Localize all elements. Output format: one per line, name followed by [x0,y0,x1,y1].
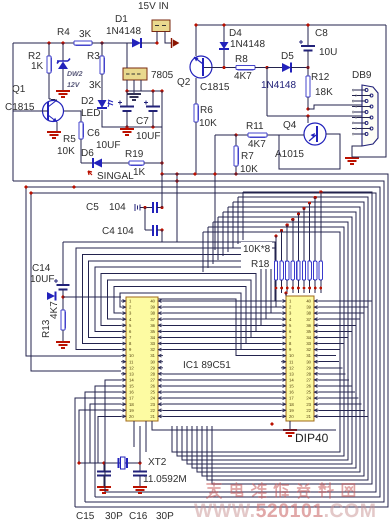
wire DIP40 right pin row 31 [319,355,336,357]
wire Q4 right loop [279,134,340,169]
wire right ring 5 [187,217,352,464]
resistor R13 [61,310,65,330]
svg-text:4K7: 4K7 [248,139,266,150]
svg-text:R5: R5 [63,134,76,145]
wire IC1 to DIP40 row 5 [163,324,281,326]
svg-text:18K: 18K [315,87,333,98]
svg-text:10U: 10U [319,47,337,58]
wire 7805 legs [126,80,128,91]
svg-text:13: 13 [129,371,134,376]
node R7 top [234,133,237,136]
wire right ring 0 west stub [242,192,244,240]
node R8-D5 [265,66,268,69]
DB9 pin 1 line [352,89,366,91]
svg-text:D2: D2 [81,96,94,107]
resistor R12 [306,76,310,97]
wire bus D left branch to IC1 pin12 [31,193,121,371]
svg-text:32: 32 [306,347,311,352]
connector 15V IN [152,20,170,32]
svg-text:Q4: Q4 [283,120,297,131]
svg-text:19: 19 [129,408,134,413]
wire DIP40 right pin row 23 [319,403,362,405]
wire R8 junction down [266,68,268,117]
wire right ring 2 [202,202,364,476]
label IC1 89C51 backdrop [181,356,238,372]
wire DIP40 right pin row 34 [319,336,348,338]
svg-text:10UF: 10UF [96,140,120,151]
wire IC1 to DIP40 row 4 [163,318,281,320]
wire IC1 to DIP40 row 20 [163,415,281,417]
svg-text:C7: C7 [136,116,149,127]
wire IC1 to DIP40 row 16 [163,391,281,393]
wire IC1 left pin 16 escape joins bus ring [85,392,121,502]
wire IC1 to DIP40 row 2 [163,306,281,308]
wire Q4 left to R11 [267,134,304,136]
svg-text:37: 37 [306,317,311,322]
wire crystal gnd rail [79,462,140,464]
svg-text:3K: 3K [79,29,92,40]
wire chip bottom long run [152,421,336,430]
svg-text:R8: R8 [235,54,248,65]
wire right ring 5 west stub [217,217,219,260]
wire left ring 2 [82,254,281,343]
plug symbol [172,38,179,48]
svg-text:1K: 1K [133,167,146,178]
svg-text:C5: C5 [86,202,99,213]
node bus crossings [160,172,163,175]
wire left border from rail to bus [12,43,14,181]
wire Q1 emitter to ground [56,122,58,131]
wire DIP40 right pin row 29 [319,367,342,369]
wire left ring 1 [76,248,281,350]
svg-text:1K: 1K [31,61,44,72]
svg-text:D6: D6 [81,148,94,159]
regulator 7805 [123,68,147,80]
wire 7805 input from rail [126,43,128,68]
resistor R8 [236,65,255,69]
svg-text:30P: 30P [156,511,174,522]
resistor R19 [129,161,144,165]
svg-text:C14: C14 [32,263,51,274]
wire left ring 7 [114,286,281,343]
svg-text:22: 22 [150,408,155,413]
IC1 pin stubs right [158,300,163,418]
ground below C15 [97,487,111,493]
resistor R18 element 8 [314,196,317,199]
svg-text:33: 33 [306,341,311,346]
LED D2 [98,100,107,108]
svg-text:29: 29 [150,365,155,370]
wire right ring 1 west stub [237,197,239,244]
crystal XT2 [119,458,128,468]
svg-text:R18: R18 [251,259,270,270]
wire left ring 3 [89,261,281,338]
svg-text:10K*8: 10K*8 [243,244,271,255]
wire C4 to ring0 [161,230,163,242]
connector DB9 [362,85,378,146]
node R12 bottom [306,107,309,110]
wire right ring 8 [172,232,340,452]
svg-text:38: 38 [150,311,155,316]
capacitor C5 [135,204,140,211]
svg-text:R13: R13 [41,319,52,338]
wire DIP40 right pin row 24 [319,397,358,399]
wire left ring 5 [101,274,281,332]
svg-text:12: 12 [289,365,294,370]
wire right ring 4 west stub [222,212,224,256]
svg-text:IC1 89C51: IC1 89C51 [183,360,231,371]
wire DIP40 right pin row 33 [319,343,344,345]
svg-text:DIP40: DIP40 [295,431,329,445]
svg-text:4K7: 4K7 [234,71,252,82]
wire right ring 7 west stub [207,227,209,268]
svg-text:10: 10 [289,353,294,358]
diode D1 [102,42,132,44]
DB9 pin 9 line [352,133,366,135]
wire right ring 3 west stub [227,207,229,252]
svg-text:23: 23 [150,402,155,407]
svg-text:10K: 10K [199,118,217,129]
wire left ring 8 [120,293,281,350]
ground below C6 [120,129,134,135]
diode D4 [223,25,225,42]
capacitor C7 [152,91,154,107]
svg-text:22: 22 [306,408,311,413]
wire right ring 6 [182,222,348,460]
wire IC1 left pin 15 escape joins bus ring [95,386,121,497]
svg-text:37: 37 [150,317,155,322]
IC1 pin numbers [129,299,156,419]
svg-text:20: 20 [129,414,134,419]
wire crystal riser to IC1 [139,426,141,463]
svg-text:16: 16 [129,390,134,395]
wire bus C left branch to IC1 pin10 [26,187,121,356]
svg-text:20: 20 [289,414,294,419]
wire DB9 shell to ground [352,146,362,157]
svg-text:30P: 30P [105,511,123,522]
svg-text:28: 28 [150,371,155,376]
wire DIP40 right pin row 28 [319,373,346,375]
capacitor C6 [126,91,128,107]
svg-text:3K: 3K [89,80,102,91]
svg-text:17: 17 [289,396,294,401]
svg-text:39: 39 [306,305,311,310]
svg-text:27: 27 [150,378,155,383]
wire bus D y193 ring [31,193,376,492]
signal input arrow [88,171,92,175]
svg-text:16: 16 [289,390,294,395]
wire DIP40 right pin row 30 [319,361,339,363]
wire DIP40 right pin row 38 [319,312,364,314]
node rail-R2 [47,41,50,44]
svg-text:38: 38 [306,311,311,316]
svg-text:40: 40 [150,299,155,304]
capacitor C4 [145,229,153,231]
svg-text:18: 18 [289,402,294,407]
svg-text:15V IN: 15V IN [138,1,169,12]
ground below DW2 [56,91,70,97]
svg-text:12: 12 [129,365,134,370]
wire right ring 8 west stub [202,232,204,272]
node D5-C8 column [306,66,309,69]
svg-text:30: 30 [150,359,155,364]
svg-text:25: 25 [150,390,155,395]
svg-text:28: 28 [306,371,311,376]
wire IC1 to DIP40 row 9 [163,349,281,351]
wire DIP40 right pin row 39 [319,306,368,308]
wire right border [352,25,386,157]
diode D5 [282,63,291,72]
diode D3 arrow [47,292,55,300]
DB9 pin 3 line [352,100,366,102]
DIP40 pin stubs left [281,300,286,418]
resistor R2 [48,43,50,56]
wire DIP40 right pin row 40 [319,300,372,302]
wire right ring 0 [212,192,372,484]
DIP40 pin stubs right [314,300,319,418]
resistor R18 element 2 [280,229,283,232]
capacitor C16 [139,463,141,471]
svg-text:24: 24 [150,396,155,401]
svg-text:10K: 10K [57,146,75,157]
svg-text:11: 11 [289,359,294,364]
wire right ring 6 west stub [212,222,214,264]
svg-text:D4: D4 [229,28,242,39]
svg-text:C8: C8 [315,28,328,39]
svg-text:1N4148: 1N4148 [106,26,141,37]
node rail-DW2 [61,41,64,44]
wire IC1 to DIP40 row 19 [163,409,281,411]
svg-text:13: 13 [289,371,294,376]
svg-text:27: 27 [306,378,311,383]
wire DIP40 right pin row 22 [319,409,365,411]
wire R12 to DB9 pin [308,105,363,109]
wire top rail second section [196,24,386,26]
wire DIP40 right pin row 37 [319,318,360,320]
svg-text:R19: R19 [125,149,144,160]
svg-text:32: 32 [150,347,155,352]
wire DIP40 right pin row 27 [319,379,349,381]
svg-text:DB9: DB9 [352,70,372,81]
wire IC1 to DIP40 row 15 [163,385,281,387]
svg-text:14: 14 [289,378,294,383]
svg-text:C15: C15 [76,511,95,522]
resistor R7 [235,135,237,146]
svg-text:23: 23 [306,402,311,407]
svg-text:4K7: 4K7 [49,301,60,319]
capacitor C14 [62,242,64,285]
svg-text:XT2: XT2 [148,457,167,468]
wire IC1 bottom stubs [133,421,135,447]
transistor Q2 [190,56,212,78]
resistor R3 [101,43,103,56]
wire C5 column [161,174,163,208]
svg-text:11: 11 [129,359,134,364]
wire +5V rail under 7805 [127,90,162,92]
svg-text:40: 40 [306,299,311,304]
svg-text:R4: R4 [57,27,70,38]
wire bus C y187 ring [26,187,380,497]
wire left ring 6 [108,280,282,337]
svg-text:104: 104 [109,202,126,213]
wire IC1 pin19 to crystal [79,410,121,463]
wire IC1 to DIP40 row 8 [163,343,281,345]
svg-text:31: 31 [306,353,311,358]
zener diode DW2 [62,43,64,61]
svg-text:R6: R6 [200,105,213,116]
svg-text:C4: C4 [102,226,115,237]
svg-text:21: 21 [306,414,311,419]
wire bus B y181 ring [13,181,384,502]
transistor Q1 [43,101,64,122]
ground below R13 [56,342,70,348]
wire IC1 pin20 ground escape [98,416,121,463]
wire Q1 emitter node to R5 [64,111,81,122]
svg-text:15: 15 [129,384,134,389]
svg-text:21: 21 [150,414,155,419]
DB9 pin 5 line [352,111,366,113]
svg-text:WWW.520101.COM: WWW.520101.COM [194,500,377,522]
wire IC1 to DIP40 row 14 [163,379,281,381]
wire Q1 base [13,110,48,112]
svg-text:LED: LED [81,108,100,119]
wire to Q4 base and DB9 [267,115,363,117]
svg-text:R12: R12 [311,72,330,83]
svg-text:D1: D1 [115,14,128,25]
wire DIP40 right pin row 35 [319,330,352,332]
wire IC1 to DIP40 row 18 [163,403,281,405]
wire IC1 to DIP40 row 13 [163,373,281,375]
wire LED to C6 node [102,110,162,127]
resistor R11 [236,134,248,136]
wire DIP40 right pin row 26 [319,385,352,387]
ground 7805 middle leg [127,94,141,100]
ground below Q1 [47,132,61,138]
capacitor C8 [307,25,309,46]
wire bus A y174 ring [75,174,388,507]
wire DIP40 right pin row 36 [319,324,356,326]
watermark chinese text 家电维修资料网 drawn as strokes [207,483,354,498]
wire reset branch corner [63,242,281,301]
svg-text:1N4148: 1N4148 [261,80,296,91]
node R19 right [160,161,163,164]
wire right ring 4 [192,212,356,468]
wire R11 feed from left [215,134,236,136]
wire Q1 collector [49,99,57,100]
wire Q2 collector riser [195,25,197,56]
svg-text:39: 39 [150,305,155,310]
resistor R5 [79,122,83,139]
IC U2 DIP40 body [286,296,314,421]
svg-text:24: 24 [306,396,311,401]
DB9 pin 4 line [352,106,371,108]
svg-text:R11: R11 [246,121,264,132]
svg-text:34: 34 [150,335,155,340]
svg-text:34: 34 [306,335,311,340]
wire +5V to signal column [161,91,163,163]
svg-text:35: 35 [306,329,311,334]
svg-text:19: 19 [289,408,294,413]
wire right ring 7 [177,227,344,456]
wire Q2 to R8 [212,67,236,69]
svg-text:36: 36 [150,323,155,328]
wire left ring 4 [95,267,281,331]
IC U1 89C51 body [126,297,158,421]
svg-text:31: 31 [150,353,155,358]
svg-text:33: 33 [150,341,155,346]
svg-text:7805: 7805 [151,70,174,81]
svg-text:10UF: 10UF [30,274,54,285]
resistor R18 element 4 [291,218,294,221]
DB9 pin 7 line [352,122,366,124]
ground below C16 [133,487,147,493]
resistor R6 [194,104,198,122]
wire IC1 to DIP40 row 6 [163,330,281,332]
resistor R18 element 5 [297,212,300,215]
svg-text:25: 25 [306,390,311,395]
svg-text:R3: R3 [87,51,100,62]
svg-text:R7: R7 [241,151,254,162]
svg-text:10UF: 10UF [136,131,160,142]
diode D6 [81,162,93,164]
svg-text:30: 30 [306,359,311,364]
DB9 pin 8 line [352,128,371,130]
transistor Q4 [304,123,326,145]
wire Q2 emitter down to R6 [195,78,197,104]
svg-text:SINGAL: SINGAL [97,171,134,182]
svg-text:18: 18 [129,402,134,407]
svg-text:C6: C6 [87,128,100,139]
svg-text:1N4148: 1N4148 [230,39,265,50]
wire IC1 to DIP40 row 17 [163,397,281,399]
wire IC1 to DIP40 row 3 [163,312,281,314]
resistor R18 element 6 [302,207,305,210]
wire vertical x177 [176,174,178,242]
svg-text:17: 17 [129,396,134,401]
resistor R18 element 3 [286,223,289,226]
wire RST to IC1 [63,296,121,298]
wire IC1 to DIP40 row 7 [163,336,281,338]
svg-text:14: 14 [129,378,134,383]
wire Q4 base [307,116,309,123]
svg-text:12V: 12V [67,82,81,89]
wire left ring 9 [121,299,281,355]
svg-text:Q2: Q2 [177,77,191,88]
svg-text:15: 15 [289,384,294,389]
wire IC1 left pin 14 escape joins bus ring [105,380,121,492]
svg-text:D5: D5 [281,51,294,62]
svg-text:35: 35 [150,329,155,334]
wire signal column to bus [161,163,163,174]
DIP40 pin numbers [289,299,312,419]
resistor R18 element 9 [319,190,322,193]
wire C5-C4 join [144,208,146,231]
wire right ring 1 [207,197,368,480]
ground below DIP40 [283,430,297,436]
wire DIP40 right pin row 25 [319,391,355,393]
wire DIP40 right pin row 21 [319,415,368,417]
wire top rail +15V [13,42,158,44]
svg-text:104: 104 [117,226,134,237]
wire DIP40 ground stub [289,421,291,429]
svg-text:Q1: Q1 [12,84,26,95]
wire 15V IN right leg to plug ground [165,32,171,44]
DB9 pin 6 line [352,117,371,119]
resistor R18 element 1 [274,234,277,237]
wire right ring 2 west stub [232,202,234,248]
svg-text:26: 26 [150,384,155,389]
svg-text:C1815: C1815 [200,82,230,93]
